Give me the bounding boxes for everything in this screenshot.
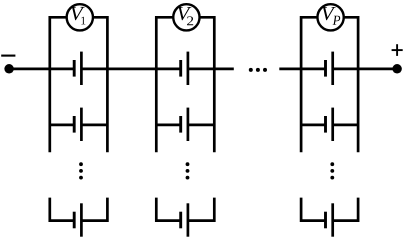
- negative terminal label "-": [1, 55, 15, 57]
- wire: right rail of string 1 with top corner to voltmeter: [92, 17, 107, 152]
- wire: string 1 bottom-left stub and lead: [50, 198, 74, 221]
- battery cell B2n long plate (positive): [187, 203, 190, 236]
- wire: string 1 cell 2 right lead: [81, 124, 107, 127]
- wire: string P bottom-right lead and stub: [333, 198, 358, 221]
- voltmeter label V_2: [178, 7, 194, 25]
- battery cell BPb short plate (negative): [324, 116, 327, 133]
- wire: string 2 cell 2 left lead: [156, 124, 180, 127]
- wire: string P cell to right terminal: [333, 68, 397, 71]
- wire: left rail of string 1 with top corner to voltmeter: [50, 17, 67, 152]
- ellipsis dots (more parallel strings): [249, 68, 267, 72]
- wire: left terminal to string 1 cell: [9, 68, 74, 71]
- vertical ellipsis (more series cells in string 1): [79, 162, 83, 179]
- voltmeter U1 circle: [67, 4, 93, 30]
- battery cell B1b long plate (positive): [80, 108, 83, 141]
- wire: right rail of string P with top corner to voltmeter: [343, 17, 358, 152]
- negative terminal node (left): [4, 64, 14, 74]
- battery cell B2b short plate (negative): [179, 116, 182, 133]
- battery cell BPn short plate (negative): [324, 212, 327, 229]
- wire: string P bottom-left stub and lead: [301, 198, 325, 221]
- wire: string P cell 2 left lead: [301, 124, 325, 127]
- battery cell B1a long plate (positive): [80, 52, 83, 85]
- wire: string 2 bottom-right lead and stub: [188, 198, 214, 221]
- vertical ellipsis (more series cells in string 2): [186, 162, 190, 179]
- voltmeter label V_P: [322, 7, 340, 25]
- battery cell BPa short plate (negative): [324, 60, 327, 77]
- battery cell B1a short plate (negative): [73, 60, 76, 77]
- battery cell BPn long plate (positive): [331, 203, 334, 236]
- battery cell B2a short plate (negative): [179, 60, 182, 77]
- wire: string 1 cell 2 left lead: [50, 124, 74, 127]
- wire: right rail of string 2 with top corner to voltmeter: [199, 17, 214, 152]
- battery cell B1n long plate (positive): [80, 203, 83, 236]
- wire: string 1 cell to string 2 cell: [81, 68, 180, 71]
- voltmeter label V_1: [71, 7, 86, 25]
- vertical ellipsis (more series cells in string P): [330, 162, 334, 179]
- battery cell B2n short plate (negative): [179, 212, 182, 229]
- wire: string 2 cell to ellipsis: [188, 68, 234, 71]
- wire: string 1 bottom-right lead and stub: [81, 198, 107, 221]
- battery cell B2a long plate (positive): [187, 52, 190, 85]
- battery cell BPa long plate (positive): [331, 52, 334, 85]
- battery cell B1b short plate (negative): [73, 116, 76, 133]
- voltmeter U2 circle: [173, 4, 199, 30]
- battery cell B2b long plate (positive): [187, 108, 190, 141]
- battery cell BPb long plate (positive): [331, 108, 334, 141]
- wire: left rail of string P with top corner to voltmeter: [301, 17, 318, 152]
- voltmeter UP circle: [317, 4, 343, 30]
- positive terminal label "+": [392, 44, 403, 56]
- wire: string 2 bottom-left stub and lead: [156, 198, 180, 221]
- wire: string 2 cell 2 right lead: [188, 124, 214, 127]
- wire: string P cell 2 right lead: [333, 124, 358, 127]
- wire: ellipsis to string P cell: [279, 68, 325, 71]
- battery cell B1n short plate (negative): [73, 212, 76, 229]
- positive terminal node (right): [392, 64, 402, 74]
- wire: left rail of string 2 with top corner to voltmeter: [156, 17, 174, 152]
